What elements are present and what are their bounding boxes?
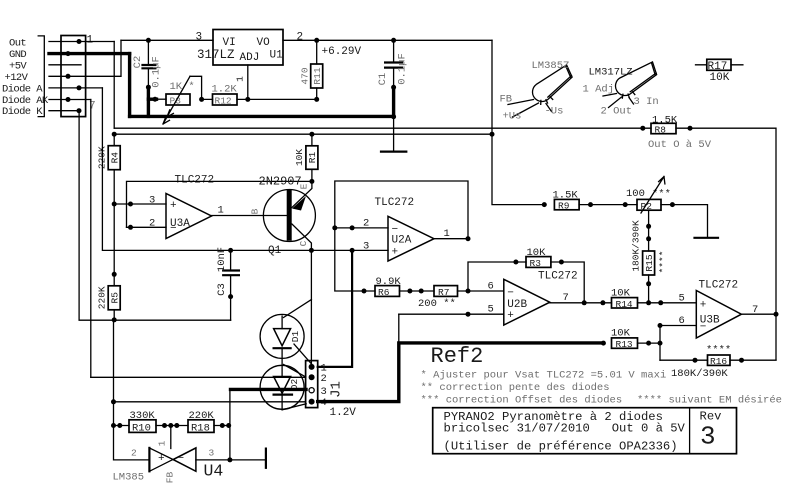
wire Diode AK column [90,100,92,378]
svg-text:+: + [700,300,707,312]
wire R6 to R7 [400,290,435,292]
LM317LZ pin leads [603,94,634,108]
wire U2A pin3 to J1 pin1 [318,250,352,367]
D1 anode diagonal to collector column [284,300,312,318]
capacitor C2 [147,40,149,87]
svg-text:U1: U1 [270,50,284,62]
LM385Z pin leads [508,100,552,118]
svg-text:R13: R13 [616,339,633,350]
svg-text:3: 3 [209,448,215,459]
svg-text:R11: R11 [312,67,323,84]
wire Diode AK pin row [49,99,91,101]
svg-text:1: 1 [218,205,224,217]
svg-text:R4: R4 [110,152,121,164]
svg-text:7: 7 [752,304,758,316]
wire +6.29V drop to R9 [492,40,544,204]
op-amp U2A [388,216,434,261]
svg-text:2: 2 [149,218,155,230]
U4 pin 3 wire to ground [196,459,266,461]
wire +12V pin row [49,40,121,76]
svg-text:+: + [158,453,165,465]
svg-text:R9: R9 [558,201,570,212]
svg-text:1: 1 [444,228,450,240]
wire J1 pin3 column down to U4 pin 3 [229,389,231,460]
U1 ADJ pin wire [247,65,249,99]
svg-text:10K: 10K [611,328,631,340]
transistor package LM317LZ (TO-92 drawing) [612,59,662,101]
connector CN1 box [61,36,86,117]
svg-text:1.5K: 1.5K [652,115,678,127]
svg-text:C3: C3 [216,283,228,296]
svg-text:10K: 10K [710,72,730,84]
resistor R3 [526,257,551,268]
wire collector to J1 pin1 column [310,250,312,367]
U2A feedback loop wire [335,181,468,239]
wire R3 right leg down to U2B output [551,262,584,303]
op-amp U3A [166,194,212,239]
photodiode D2 [260,365,304,409]
resistor R4 [113,134,115,286]
svg-text:TLC272: TLC272 [175,175,215,187]
svg-text:GND: GND [9,49,26,61]
U3A pin 3 wire [114,203,166,205]
wire R8 to right edge and down [676,128,776,360]
J1 pin number labels [321,363,327,410]
resistor R13 [612,338,638,348]
Q1 collector wire [292,224,312,250]
svg-text:470: 470 [300,67,311,84]
svg-text:2: 2 [321,373,327,385]
wire R13 to pin6 column [638,342,661,344]
connector J1 box [306,361,318,408]
svg-text:+6.29V: +6.29V [322,46,362,58]
D1 cathode diagonal to J1 pin 1 [294,344,312,364]
capacitor C1 ground lead (thick) [392,87,395,116]
svg-text:****: **** [706,345,731,357]
svg-text:10K: 10K [527,247,547,259]
U2A output pin 1 [434,238,468,240]
svg-text:Out: Out [9,37,26,49]
svg-text:10K: 10K [294,149,305,166]
wire P2 bottom to R15 [648,210,650,251]
svg-text:ADJ: ADJ [240,52,260,64]
svg-text:U2A: U2A [392,235,412,247]
svg-text:D1: D1 [290,331,301,343]
svg-text:Out O à 5V: Out O à 5V [648,139,712,151]
wire U2A- to R6 [335,228,375,291]
svg-text:180K/390K: 180K/390K [631,220,642,272]
svg-text:220K: 220K [97,286,108,309]
wire R15 to R14 row [648,275,650,303]
potentiometer P2 [637,199,661,210]
svg-text:TLC272: TLC272 [538,271,578,283]
wire P2 right to ground [661,205,708,238]
resistor R12 [202,98,248,100]
voltage reference U4 LM385 [148,448,150,471]
svg-text:**** suivant EM désirée: **** suivant EM désirée [637,395,782,407]
resistor R9 [554,199,579,209]
resistor R7 [434,286,458,297]
svg-text:TLC272: TLC272 [699,280,739,292]
svg-text:+12V: +12V [5,72,29,84]
connector CN1 pin junction dots [66,39,82,113]
capacitor C2 ground lead (thick) [147,87,150,116]
wire +6.29V sub-rail [114,133,492,135]
svg-text:Diode AK: Diode AK [2,95,49,107]
wire +6.29V output rail [283,39,492,41]
J1 pin 2 [309,374,315,380]
wire R5 column down to U4 [114,320,150,460]
wire GND horizontal rail (thick) [130,115,394,118]
svg-text:7: 7 [89,101,96,113]
svg-text:1: 1 [235,76,246,82]
svg-text:R5: R5 [110,292,121,304]
resistor R18 [188,420,214,433]
svg-text:R1: R1 [307,152,318,164]
ground symbol right of U4 [265,449,267,468]
svg-text:2: 2 [131,448,137,459]
J1 pin 3 (open) [309,388,314,393]
svg-text:7: 7 [563,292,569,304]
op-amp U3B [696,291,741,339]
svg-text:180K/390K: 180K/390K [671,368,728,380]
D2 cathode diagonal to J1 pin 4 [282,404,306,410]
wire U2B pin5 down to Ref2 [398,314,400,343]
svg-text:10K: 10K [611,288,631,300]
svg-text:2: 2 [363,218,369,230]
svg-text:+5V: +5V [9,60,27,72]
svg-text:200 **: 200 ** [418,298,456,310]
transistor Q1 [263,190,315,242]
resistor R15 [643,251,655,275]
U2A pin 2 wire [335,227,388,229]
svg-text:LM317LZ: LM317LZ [589,67,633,79]
title block box [433,408,737,454]
svg-text:FB: FB [500,94,513,106]
svg-text:3: 3 [363,241,369,253]
svg-text:5: 5 [488,304,494,316]
U3A pin 2 wire [127,226,167,228]
svg-text:VO: VO [257,37,271,49]
svg-text:1.2K: 1.2K [212,84,238,96]
svg-text:** correction pente des diodes: ** correction pente des diodes [421,382,610,394]
resistor R17 [696,64,743,66]
capacitor C3 [230,250,232,320]
svg-text:+Us: +Us [503,111,522,123]
svg-text:R12: R12 [215,96,232,107]
wire C3 bottom to Diode K column [79,111,231,321]
J1 pin 4 [309,399,315,405]
svg-text:R15: R15 [644,254,655,271]
wire R10 to R18 [156,425,188,427]
photodiode D1 [260,314,304,358]
wire GND pin row (thick) [49,52,130,55]
wire R9 to P2 [579,204,637,206]
svg-text:0.1µF: 0.1µF [151,56,163,88]
wire R16 row [660,359,776,361]
svg-text:Diode A: Diode A [2,83,43,95]
transistor package LM385Z (TO-92 drawing) [529,63,578,108]
wire R18 to U4 pin3 column [214,425,230,427]
wire Out net vertical drop [113,42,115,129]
resistor R14 [612,298,638,308]
capacitor C1 [393,40,395,87]
wire R14 to U3B pin 5 [638,302,697,304]
resistor R5 [108,286,120,310]
svg-text:R7: R7 [438,287,449,298]
svg-text:+: + [170,200,177,212]
P3 wiper arrow [163,76,190,124]
P3 wiper jumper wire [190,76,202,99]
svg-text:Diode K: Diode K [2,106,43,118]
resistor R8 [651,123,676,133]
svg-text:317LZ: 317LZ [197,48,235,62]
svg-text:6: 6 [679,315,685,327]
op-amp U2B [504,279,550,325]
wire GND vertical (thick) [128,54,131,117]
svg-text:R3: R3 [530,258,542,269]
wire +5V stub [49,64,81,66]
connector CN1 bracket [38,36,44,117]
svg-text:10nF: 10nF [216,247,228,272]
U2B output pin 7 [550,302,612,304]
svg-text:-Us: -Us [545,106,564,118]
svg-text:6: 6 [488,281,494,293]
U3B output pin 7 [741,313,776,315]
wire R3 feedback left leg [468,262,526,291]
U3A output pin 1 wire to Q1 base [212,215,287,217]
wire J1 pin 4 left (R10 net) [114,401,306,403]
wire collector bus [102,88,388,251]
svg-text:C1: C1 [377,73,389,86]
wire pin6 column [659,326,661,361]
P2 wiper arrow [641,177,665,214]
D2 anode diagonal to J1 pin 2 [284,365,306,378]
svg-text:−: − [700,322,707,334]
svg-text:5: 5 [679,293,685,305]
svg-text:R18: R18 [191,423,210,435]
svg-text:R10: R10 [132,423,151,435]
resistor R16 [708,355,731,365]
wire Out pin row [49,41,114,43]
wire U4 net to J1 pin 3 (thick) [231,388,307,391]
svg-text:B: B [250,208,261,214]
svg-text:C2: C2 [132,56,144,69]
wire U4 pin 1 [170,426,172,449]
svg-text:1: 1 [87,35,94,47]
svg-text:****: **** [658,251,669,274]
wire ADJ node to R11 [248,98,317,100]
resistor R6 [375,286,400,297]
svg-text:9.9K: 9.9K [376,276,402,288]
resistor R10 [114,425,130,427]
wire +12V rail to U1 VI [121,39,213,41]
svg-text:R6: R6 [378,287,390,298]
wire R7 to U2B pin 6 [458,290,504,292]
svg-text:R16: R16 [710,356,727,367]
svg-text:2: 2 [297,32,304,44]
svg-text:C: C [298,240,309,246]
ground symbol right of P2 [695,237,719,239]
svg-text:3: 3 [700,422,716,452]
svg-text:100: 100 [626,188,645,200]
svg-text:FB: FB [165,472,176,483]
svg-text:1 Adj: 1 Adj [583,84,615,96]
wire Out rail to R8 [114,127,651,129]
svg-text:−: − [178,453,185,465]
wire Diode AK row to J1 pin 2 [91,376,306,378]
svg-text:LM385Z: LM385Z [532,60,570,72]
svg-text:R14: R14 [616,299,633,310]
svg-text:2 Out: 2 Out [601,106,633,118]
svg-text:LM385: LM385 [113,472,145,483]
svg-text:Ref2: Ref2 [431,344,484,369]
svg-text:2N2907: 2N2907 [259,175,302,189]
svg-text:3: 3 [149,195,155,207]
svg-text:(Utiliser de préférence OPA233: (Utiliser de préférence OPA2336) [444,440,678,454]
svg-text:E: E [299,183,310,189]
svg-text:1.5K: 1.5K [553,190,579,202]
svg-text:220K: 220K [189,410,215,422]
U3A feedback loop wire [127,181,312,227]
resistor R1 [311,134,313,181]
svg-text:J1: J1 [329,381,345,398]
resistor R11 [316,40,318,99]
svg-text:1: 1 [157,440,168,446]
svg-text:0.1µF: 0.1µF [397,53,409,85]
svg-text:3 In: 3 In [634,96,659,108]
regulator U1 box [213,30,283,66]
svg-text:+: + [392,247,399,259]
ground symbol below C1 [393,117,395,152]
U3B pin 6 wire [660,325,696,327]
svg-text:bricolsec 31/07/2010 Out 0 à: bricolsec 31/07/2010 Out 0 à 5V [444,422,686,436]
svg-text:+: + [507,310,514,322]
svg-text:−: − [507,288,514,300]
Q1 emitter wire and arrow [292,181,312,207]
svg-text:3: 3 [196,32,203,44]
wire Diode K pin row [49,110,79,112]
J1 pin 1 [309,364,315,370]
U2B pin 5 wire [399,313,504,315]
svg-text:330K: 330K [130,410,156,422]
svg-text:* Ajuster pour Vsat TLC272 =5.: * Ajuster pour Vsat TLC272 =5.01 V maxi [421,370,667,382]
svg-text:TLC272: TLC272 [375,197,415,209]
svg-text:*** correction Offset des diod: *** correction Offset des diodes [421,395,623,407]
svg-text:U3A: U3A [170,218,190,230]
wire Diode A pin row [49,87,102,89]
wire J1 pin 4 Ref2 net (thick) [318,343,604,402]
potentiometer P3 [148,97,156,100]
svg-text:U4: U4 [204,462,224,481]
connector CN1 labels [2,37,49,118]
svg-text:1.2V: 1.2V [330,407,357,419]
